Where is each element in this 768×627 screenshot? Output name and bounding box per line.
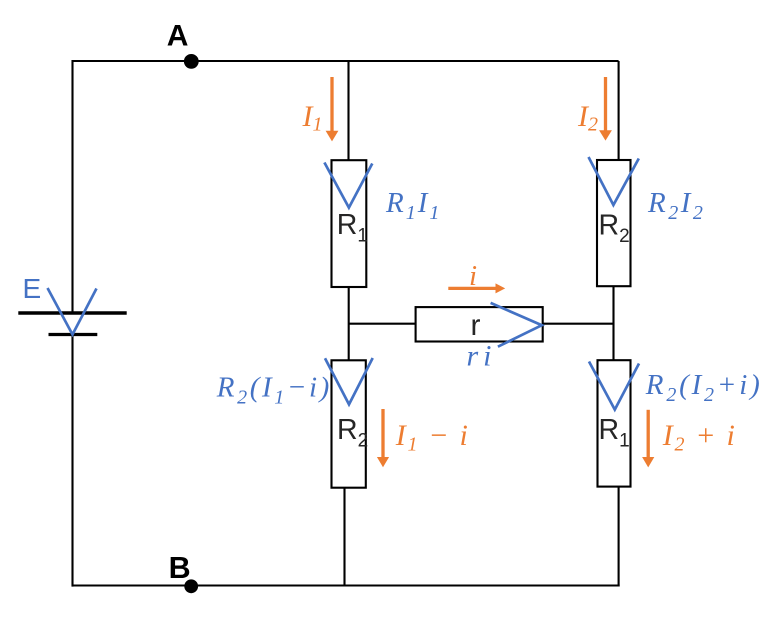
- resistor R2 top-right body: [597, 160, 631, 286]
- current arrow I1: [326, 77, 339, 141]
- svg-text:A: A: [167, 19, 189, 52]
- resistor R2 bottom-left body: [332, 360, 366, 487]
- resistor R1 top-left body: [332, 160, 367, 287]
- battery E long plate: [18, 311, 126, 315]
- voltage mark V across R2 top-right: [589, 157, 639, 205]
- wire left branch middle: [348, 287, 350, 360]
- wire bottom horizontal B-row: [72, 584, 620, 586]
- voltage mark V across R1 bottom-right: [589, 362, 639, 410]
- voltage mark V across battery E: [48, 288, 97, 335]
- wire middle horizontal right of r: [543, 323, 614, 325]
- wire left branch bottom drop: [343, 488, 345, 587]
- svg-text:i: i: [469, 260, 477, 292]
- wire right branch middle: [612, 286, 614, 360]
- node A junction dot: [184, 54, 199, 69]
- svg-text:I1 − i: I1 − i: [395, 419, 470, 456]
- svg-text:E: E: [23, 273, 42, 304]
- wire right branch top drop: [618, 61, 620, 161]
- wire right branch bottom drop: [618, 487, 620, 587]
- voltage mark V across R2 bottom-left: [325, 358, 373, 404]
- svg-text:r: r: [471, 309, 481, 342]
- resistor R1 bottom-right body: [598, 360, 631, 486]
- wire left vertical upper (to battery): [71, 60, 73, 313]
- svg-text:ri: ri: [467, 339, 497, 372]
- svg-text:B: B: [169, 551, 191, 585]
- current arrow I2+i (bottom-right): [642, 410, 654, 468]
- svg-text:R2(I1−i): R2(I1−i): [216, 372, 332, 409]
- wire left branch top drop: [347, 61, 349, 161]
- wire top horizontal A-row: [72, 60, 619, 62]
- resistor r body: [416, 307, 543, 341]
- current arrow I1-i (bottom-left): [377, 409, 389, 467]
- voltage mark V across R1 top-left: [324, 163, 372, 208]
- current arrow i (middle): [448, 283, 505, 293]
- svg-text:I2 + i: I2 + i: [662, 419, 737, 456]
- voltage mark chevron across r: [491, 303, 542, 347]
- svg-text:R2(I2+i): R2(I2+i): [645, 369, 763, 406]
- battery E short plate: [49, 333, 98, 336]
- current arrow I2: [599, 77, 612, 141]
- wire middle horizontal left of r: [349, 323, 416, 325]
- wire left vertical lower (battery to B-row): [71, 335, 73, 587]
- node B junction dot: [184, 579, 198, 593]
